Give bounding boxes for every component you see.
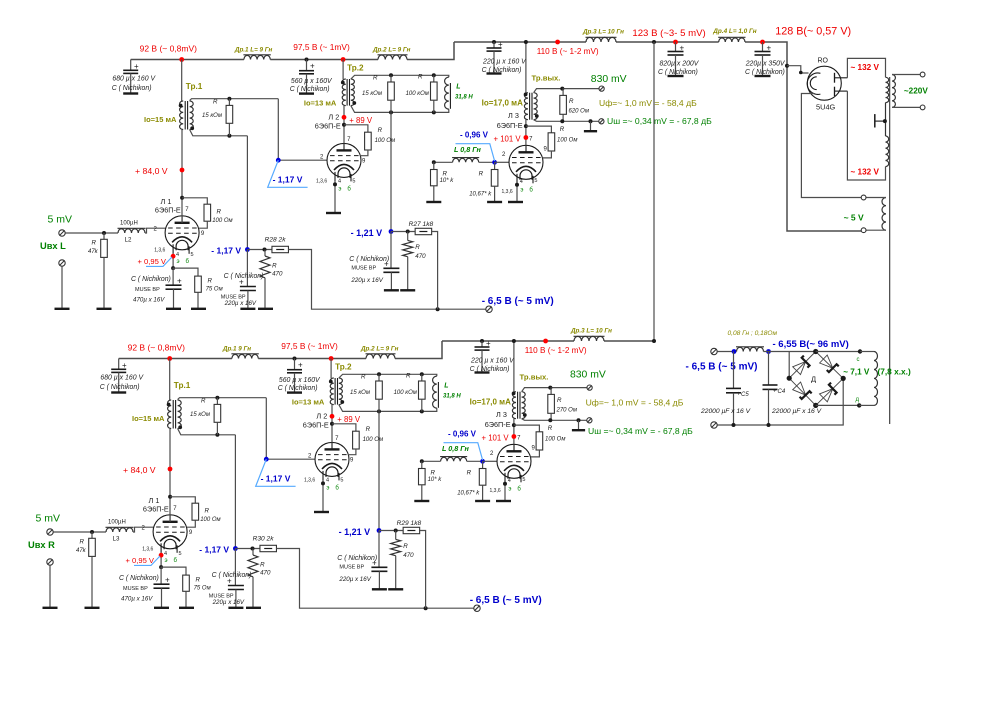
svg-text:+: + <box>310 62 315 71</box>
svg-text:э: э <box>520 187 523 193</box>
wire Tr1 secondary top (left ch) <box>190 97 279 101</box>
terminal output hot (left ch) <box>591 74 627 91</box>
svg-text:100 Ом: 100 Ом <box>557 137 577 143</box>
label 97.5V (left ch) <box>293 42 350 52</box>
capacitor 220u 160V (left ch) <box>482 40 527 74</box>
wire input (right ch) <box>54 530 107 534</box>
capacitor 220u 160V (right ch) <box>470 339 515 373</box>
svg-text:R: R <box>431 470 436 477</box>
resistor R 10.67k (right ch) <box>457 461 490 501</box>
svg-text:L: L <box>444 383 448 390</box>
svg-text:75 Ом: 75 Ом <box>194 586 211 592</box>
svg-text:Io=15 мА: Io=15 мА <box>144 115 177 124</box>
capacitor 470u 16V cathode (left ch) <box>131 268 182 309</box>
svg-text:680 µ x 160 V: 680 µ x 160 V <box>112 76 156 83</box>
diode D2 (T-R) <box>820 355 839 372</box>
node 123V junction <box>652 40 656 44</box>
wire interstage2 bottom (right ch) <box>339 405 437 414</box>
svg-text:б: б <box>335 486 339 492</box>
label 110V (right ch) <box>525 346 587 355</box>
svg-text:Io=13 мА: Io=13 мА <box>292 398 325 407</box>
inductor L2 100uH (right ch) <box>106 520 134 543</box>
svg-text:92 В (~ 0,8mV): 92 В (~ 0,8mV) <box>128 343 186 353</box>
label 123V <box>632 28 705 39</box>
svg-text:MUSE BP: MUSE BP <box>135 287 160 293</box>
transformer Tr2 (left ch) <box>304 60 364 108</box>
svg-text:Io=17,0 мА: Io=17,0 мА <box>470 398 511 407</box>
center tap <box>875 114 887 127</box>
tube L2 6E6P-E (left ch) <box>315 112 366 192</box>
svg-text:R27 1k8: R27 1k8 <box>409 221 434 228</box>
wire B+ rail 110V/123V segment (right ch) <box>442 340 654 342</box>
inductor Dr1 (left ch) <box>234 47 273 60</box>
terminal output hot (right ch) <box>570 370 606 391</box>
resistor R 100 Ohm stage1 (right ch) <box>170 497 221 527</box>
transformer Tr1 (left ch) <box>144 60 203 131</box>
callout +0.95V (right ch) <box>126 556 161 565</box>
resistor R 100 Ohm stage1 (left ch) <box>182 198 233 228</box>
label +89V (right ch) <box>337 415 361 424</box>
svg-text:б: б <box>347 187 351 193</box>
wire bias node to R28 (right ch) <box>235 547 260 551</box>
node -1.21V (right ch) <box>339 527 382 537</box>
svg-text:R: R <box>272 263 277 270</box>
svg-text:R: R <box>366 426 371 433</box>
svg-text:C ( Nichikon): C ( Nichikon) <box>131 276 171 283</box>
wire anode L3 (left ch) <box>524 120 529 146</box>
resistor R 620 Ohm (right ch) <box>548 387 577 419</box>
svg-text:47k: 47k <box>88 249 99 255</box>
power transformer HV winding <box>847 58 888 180</box>
label +84.0V (left ch) <box>135 166 168 176</box>
svg-text:270 Ом: 270 Ом <box>556 408 577 414</box>
svg-text:Др.2 L= 9 Гн: Др.2 L= 9 Гн <box>372 47 411 54</box>
svg-text:123 В (~3- 5 mV): 123 В (~3- 5 mV) <box>632 28 705 39</box>
inductor L 31.8 H (left ch) <box>445 77 474 109</box>
svg-text:100 Ом: 100 Ом <box>375 138 395 144</box>
svg-text:97,5 В (~ 1mV): 97,5 В (~ 1mV) <box>293 42 350 52</box>
svg-text:5 mV: 5 mV <box>48 214 73 226</box>
svg-text:100 кОм: 100 кОм <box>406 91 429 97</box>
diode D1 (L-T) <box>793 356 810 375</box>
tube L1 6E6P-E (right ch) <box>142 496 193 564</box>
svg-text:1,3,6: 1,3,6 <box>154 248 165 254</box>
svg-text:470µ x 16V: 470µ x 16V <box>133 297 165 304</box>
wire grid3 (right ch) <box>483 460 497 462</box>
label bias choke <box>728 330 778 337</box>
node -1.21V (left ch) <box>351 228 394 238</box>
svg-text:5: 5 <box>340 478 343 484</box>
wire output bottom (right ch) <box>522 418 587 422</box>
label +84.0V (right ch) <box>123 465 156 475</box>
capacitor 470u 16V cathode (right ch) <box>119 567 170 608</box>
svg-text:Uвх R: Uвх R <box>28 540 55 550</box>
svg-text:5U4G: 5U4G <box>816 103 836 112</box>
resistor R 10.67k (left ch) <box>469 162 502 202</box>
svg-text:5: 5 <box>191 252 194 258</box>
svg-text:б: б <box>517 486 521 492</box>
svg-text:R: R <box>378 127 383 134</box>
capacitor 560u 160V (left ch) <box>290 58 333 94</box>
svg-text:R: R <box>406 373 411 380</box>
svg-text:C4: C4 <box>778 389 786 395</box>
svg-text:C ( Nichikon): C ( Nichikon) <box>212 572 252 579</box>
label -6.55V <box>773 339 849 350</box>
svg-text:Io=17,0 мА: Io=17,0 мА <box>482 99 523 108</box>
svg-text:97,5 В (~ 1mV): 97,5 В (~ 1mV) <box>281 341 338 351</box>
svg-text:1,3,6: 1,3,6 <box>142 547 153 553</box>
svg-text:- 1,17 V: - 1,17 V <box>199 544 229 554</box>
svg-text:0,08 Гн ; 0,18Ом: 0,08 Гн ; 0,18Ом <box>728 330 778 337</box>
svg-text:+: + <box>165 576 170 585</box>
svg-text:128 В(~ 0,57 V): 128 В(~ 0,57 V) <box>775 26 851 38</box>
svg-text:R: R <box>260 562 265 569</box>
wire cathode L2 to ground (right ch) <box>314 480 329 512</box>
svg-text:Тр.2: Тр.2 <box>335 363 352 372</box>
wire Tr1 secondary bottom (left ch) <box>190 130 248 138</box>
primary 220V winding <box>892 72 928 110</box>
svg-text:470: 470 <box>272 271 283 278</box>
svg-text:110 В (~ 1-2 mV): 110 В (~ 1-2 mV) <box>525 346 587 355</box>
wire stage2 bias feed (left ch) <box>390 112 392 231</box>
wire anode L2 (left ch) <box>342 106 347 144</box>
wire cathode L2 to ground (left ch) <box>326 181 341 213</box>
7.1V winding <box>843 352 911 406</box>
svg-text:100 Ом: 100 Ом <box>363 437 383 443</box>
svg-text:Др.3 L= 10 Гн: Др.3 L= 10 Гн <box>570 328 612 335</box>
transformer Tr out (right ch) <box>470 339 549 419</box>
node 97.5V (left ch) <box>341 57 346 62</box>
svg-text:- 6,55 В(~ 96 mV): - 6,55 В(~ 96 mV) <box>773 339 849 350</box>
node cathode L1 +0.95V (right ch) <box>159 553 164 569</box>
svg-text:C ( Nichikon): C ( Nichikon) <box>658 69 698 76</box>
svg-text:5 mV: 5 mV <box>36 513 61 525</box>
left channel <box>40 29 712 313</box>
resistor R27 1k8 (left ch) <box>391 221 438 309</box>
svg-text:R: R <box>361 374 366 381</box>
svg-text:- 1,21 V: - 1,21 V <box>339 527 371 537</box>
inductor Dr4 <box>712 28 756 42</box>
capacitor 220u 16V stage2 (left ch) <box>349 232 399 291</box>
capacitor 220u 16V stage2 (right ch) <box>337 531 387 590</box>
svg-text:R: R <box>467 470 472 477</box>
svg-text:4: 4 <box>508 478 511 484</box>
wire bias node to R28 (left ch) <box>247 248 272 252</box>
wire anode L1 (left ch) <box>180 130 185 223</box>
svg-text:Io=15 мА: Io=15 мА <box>132 414 165 423</box>
svg-text:220µ x 16V: 220µ x 16V <box>338 576 371 583</box>
wire HV rail 123V/128V <box>666 42 861 231</box>
callout -1.17V grid2 (right ch) <box>256 459 296 486</box>
svg-text:10* k: 10* k <box>440 178 455 184</box>
svg-text:б: б <box>174 558 178 564</box>
inductor L 0.8 Gn (left ch) <box>452 145 495 162</box>
wire anode L2 (right ch) <box>330 405 335 443</box>
svg-text:620 Ом: 620 Ом <box>569 109 589 115</box>
svg-text:- 0,96 V: - 0,96 V <box>460 130 489 139</box>
wire cathode L3 to ground (left ch) <box>508 183 523 202</box>
wire anode L3 (right ch) <box>512 419 517 445</box>
svg-text:100 Ом: 100 Ом <box>545 436 565 442</box>
svg-text:б: б <box>186 259 190 265</box>
terminal output gnd (left ch) <box>599 119 604 124</box>
svg-text:(7,8 х.х.): (7,8 х.х.) <box>878 366 911 376</box>
resistor R 470 stage2 (right ch) <box>388 531 414 590</box>
wire bias return <box>718 378 844 427</box>
svg-text:- 1,17 V: - 1,17 V <box>261 474 291 484</box>
label D <box>811 375 816 384</box>
svg-text:Тр.вых.: Тр.вых. <box>532 74 561 83</box>
svg-text:4: 4 <box>326 478 329 484</box>
capacitor 680u 160V (right ch) <box>100 359 145 393</box>
svg-text:Uф=~ 1,0 mV = - 58,4 дБ: Uф=~ 1,0 mV = - 58,4 дБ <box>599 98 697 108</box>
resistor R 47k (left ch) <box>88 233 112 309</box>
wire grid1 (left ch) <box>145 228 166 233</box>
svg-text:5: 5 <box>522 477 525 483</box>
svg-text:Тр.1: Тр.1 <box>174 381 191 390</box>
wire interstage2 top (right ch) <box>339 372 437 378</box>
label 128V <box>775 26 851 38</box>
tube L2 6E6P-E (right ch) <box>303 411 354 491</box>
wire L0.8 feed (right ch) <box>420 459 441 463</box>
svg-text:22000 µF x 16 V: 22000 µF x 16 V <box>771 408 822 415</box>
inductor Dr3 (left ch) <box>582 29 624 43</box>
svg-text:- 6,5 В (~ 5 mV): - 6,5 В (~ 5 mV) <box>686 362 758 373</box>
svg-text:R: R <box>403 543 408 550</box>
resistor R 75 Ohm cathode (right ch) <box>161 567 211 608</box>
svg-text:L3: L3 <box>113 536 120 543</box>
svg-text:R: R <box>548 425 553 432</box>
svg-text:R: R <box>213 99 218 106</box>
transformer core line <box>889 77 891 424</box>
svg-text:1,3,6: 1,3,6 <box>304 477 315 483</box>
svg-text:C ( Nichikon): C ( Nichikon) <box>112 85 152 92</box>
label 110V (left ch) <box>537 47 599 56</box>
diode D4 (B-R) <box>820 383 837 402</box>
terminal -6.5V (right ch) <box>470 595 542 611</box>
svg-text:47k: 47k <box>76 548 87 554</box>
label Ush (right ch) <box>588 426 693 436</box>
svg-text:22000 µF x 16 V: 22000 µF x 16 V <box>700 408 751 415</box>
resistor R 470 stage1 (right ch) <box>246 549 271 608</box>
transformer Tr2 (right ch) <box>292 359 352 407</box>
wire L0.8 feed (left ch) <box>432 160 453 164</box>
resistor R27 1k8 (right ch) <box>379 520 426 608</box>
svg-text:C ( Nichikon): C ( Nichikon) <box>482 67 522 74</box>
svg-text:830 mV: 830 mV <box>570 370 606 381</box>
terminal bias out <box>686 348 758 372</box>
svg-text:R: R <box>418 74 423 81</box>
svg-text:э: э <box>177 259 180 265</box>
capacitor C4 22000uF <box>763 352 822 426</box>
capacitor 220u 16V stage1 (right ch) <box>209 549 252 608</box>
resistor R 15 kOhm stage2 (right ch) <box>350 374 382 412</box>
inductor bias choke <box>717 347 815 354</box>
svg-text:560 µ x 160V: 560 µ x 160V <box>291 78 333 85</box>
callout -0.96V (left ch) <box>456 144 495 161</box>
svg-text:75 Ом: 75 Ом <box>206 287 223 293</box>
svg-text:220µ x 350V: 220µ x 350V <box>745 61 786 68</box>
svg-text:4: 4 <box>520 179 523 185</box>
svg-text:R: R <box>569 98 574 105</box>
wire output top (right ch) <box>522 386 587 392</box>
svg-text:1,3,6: 1,3,6 <box>490 488 501 494</box>
wire bridge AC top <box>816 349 863 353</box>
tube L3 6E6P-E (right ch) <box>485 410 536 494</box>
wire bridge AC bottom <box>816 403 862 407</box>
svg-text:220 µ x 160 V: 220 µ x 160 V <box>470 358 515 365</box>
wire -6.5V bus (left ch) <box>288 250 486 312</box>
svg-text:5: 5 <box>179 551 182 557</box>
wire rectifier filament feed <box>785 64 809 75</box>
svg-text:- 1,17 V: - 1,17 V <box>273 175 303 185</box>
svg-text:+ 101 V: + 101 V <box>494 135 522 144</box>
node 92V (right ch) <box>167 356 172 361</box>
resistor R 10k (left ch) <box>426 162 454 202</box>
node -1.17V cathode net (right ch) <box>199 544 238 554</box>
svg-text:830 mV: 830 mV <box>591 74 627 85</box>
svg-text:1,3,6: 1,3,6 <box>316 178 327 184</box>
svg-text:C ( Nichikon): C ( Nichikon) <box>745 69 785 76</box>
inductor Dr1 (right ch) <box>222 346 259 359</box>
node 110V (right ch) <box>543 339 548 344</box>
wire grid2 drive (right ch) <box>266 398 315 460</box>
svg-text:6Э6П-Е: 6Э6П-Е <box>485 420 511 429</box>
node 110V (left ch) <box>555 40 560 45</box>
svg-text:C ( Nichikon): C ( Nichikon) <box>290 86 330 93</box>
svg-text:470: 470 <box>415 253 426 260</box>
wire interstage2 bottom (left ch) <box>351 106 449 115</box>
terminal input gnd (left ch) <box>55 260 70 309</box>
wire filament to 5V winding <box>801 94 861 198</box>
svg-text:470: 470 <box>403 552 414 559</box>
resistor R28 2k (left ch) <box>265 237 289 253</box>
svg-text:~ 5 V: ~ 5 V <box>844 212 864 222</box>
resistor R 75 Ohm cathode (left ch) <box>173 268 223 309</box>
svg-text:C ( Nichikon): C ( Nichikon) <box>470 366 510 373</box>
svg-text:10,67* k: 10,67* k <box>469 191 492 197</box>
svg-text:~ 132 V: ~ 132 V <box>851 63 880 72</box>
resistor R 470 stage2 (left ch) <box>400 232 426 291</box>
node -1.17V grid2 (right ch) <box>264 457 269 462</box>
svg-text:R: R <box>92 240 97 247</box>
svg-text:R: R <box>373 75 378 82</box>
tube L3 6E6P-E (left ch) <box>497 111 548 195</box>
node -0.96V (left ch) <box>460 130 497 164</box>
svg-text:Др.1 9 Гн: Др.1 9 Гн <box>222 346 251 353</box>
terminal input hot (right ch) <box>28 513 60 551</box>
svg-text:R: R <box>80 539 85 546</box>
svg-text:10* k: 10* k <box>428 477 443 483</box>
svg-text:R29 1k8: R29 1k8 <box>397 520 422 527</box>
terminal bias gnd <box>711 422 717 428</box>
svg-text:Д: Д <box>811 375 816 384</box>
resistor R 100 Ohm stage3 (left ch) <box>526 126 578 158</box>
svg-text:L 0,8 Гн: L 0,8 Гн <box>442 444 469 453</box>
callout -1.17V grid2 (left ch) <box>268 160 308 187</box>
svg-text:Др.3 L= 10 Гн: Др.3 L= 10 Гн <box>582 29 624 36</box>
svg-text:680 µ x 160 V: 680 µ x 160 V <box>100 375 144 382</box>
wire stage2 bias feed (right ch) <box>378 411 380 530</box>
svg-text:6Э6П-Е: 6Э6П-Е <box>143 505 169 514</box>
svg-text:- 0,96 V: - 0,96 V <box>448 429 477 438</box>
svg-text:560 µ x 160V: 560 µ x 160V <box>279 377 321 384</box>
svg-text:R: R <box>443 171 448 178</box>
svg-text:+ 89 V: + 89 V <box>337 415 361 424</box>
svg-text:L: L <box>456 84 460 91</box>
svg-text:R28 2k: R28 2k <box>265 237 287 244</box>
wire grid2 drive (left ch) <box>278 99 327 161</box>
svg-text:C5: C5 <box>741 392 749 398</box>
svg-text:R: R <box>196 577 201 584</box>
resistor R 100 Ohm stage2 (left ch) <box>344 125 395 156</box>
rectifier tube 5U4G <box>807 58 847 112</box>
resistor R 15 kOhm stage1 (left ch) <box>202 99 233 136</box>
svg-text:Uф=~ 1,0 mV = - 58,4 дБ: Uф=~ 1,0 mV = - 58,4 дБ <box>586 398 684 408</box>
node -0.96V (right ch) <box>448 429 485 463</box>
resistor R 100 Ohm stage2 (right ch) <box>332 424 383 455</box>
svg-text:+: + <box>773 389 777 395</box>
svg-text:4: 4 <box>338 179 341 185</box>
label 97.5V (right ch) <box>281 341 338 351</box>
node cathode L1 +0.95V (left ch) <box>171 254 176 270</box>
resistor R 15 kOhm stage2 (left ch) <box>362 75 394 113</box>
svg-text:~220V: ~220V <box>904 86 928 95</box>
svg-text:Л 2: Л 2 <box>316 411 327 420</box>
callout -0.96V (right ch) <box>444 443 483 460</box>
svg-text:- 1,17 V: - 1,17 V <box>211 245 241 255</box>
svg-text:R: R <box>415 244 420 251</box>
svg-text:Тр.2: Тр.2 <box>347 64 364 73</box>
inductor Dr2 (right ch) <box>360 346 399 359</box>
wire Tr1 secondary bottom (right ch) <box>178 429 236 437</box>
svg-text:220µ x 16V: 220µ x 16V <box>350 277 383 284</box>
svg-text:Др.1 L= 9 Гн: Др.1 L= 9 Гн <box>234 47 273 54</box>
5V winding <box>844 195 886 233</box>
terminal input hot (left ch) <box>40 214 72 252</box>
svg-text:C ( Nichikon): C ( Nichikon) <box>224 273 264 280</box>
svg-text:- 6,5 В (~ 5 mV): - 6,5 В (~ 5 mV) <box>470 595 542 606</box>
wire input (left ch) <box>66 231 119 235</box>
ground output (left ch) <box>584 121 597 131</box>
terminal input gnd (right ch) <box>43 559 58 608</box>
svg-text:100 кОм: 100 кОм <box>394 390 417 396</box>
resistor R 100 kOhm (right ch) <box>394 373 426 412</box>
svg-text:15 кОм: 15 кОм <box>350 390 370 396</box>
wire B+ rail 92V/97.5V segment (right ch) <box>119 341 442 359</box>
svg-text:+ 0,95 V: + 0,95 V <box>126 556 155 565</box>
transformer Tr1 (right ch) <box>132 359 191 430</box>
svg-text:R: R <box>201 398 206 405</box>
svg-text:MUSE BP: MUSE BP <box>351 265 376 271</box>
svg-text:470: 470 <box>260 570 271 577</box>
svg-text:5: 5 <box>352 179 355 185</box>
ground output (right ch) <box>572 420 585 430</box>
svg-text:R30 2k: R30 2k <box>253 536 275 543</box>
svg-text:б: б <box>529 187 533 193</box>
svg-text:R: R <box>205 508 210 515</box>
svg-text:100µH: 100µH <box>120 221 138 227</box>
resistor R 620 Ohm (left ch) <box>560 88 589 120</box>
svg-text:6Э6П-Е: 6Э6П-Е <box>497 121 523 130</box>
svg-text:э: э <box>338 187 341 193</box>
resistor R 100 Ohm stage3 (right ch) <box>514 425 566 457</box>
svg-text:Uш =~ 0,34 mV = - 67,8 дБ: Uш =~ 0,34 mV = - 67,8 дБ <box>607 116 712 126</box>
resistor R 15 kOhm stage1 (right ch) <box>190 398 221 435</box>
svg-text:15 кОм: 15 кОм <box>190 412 210 418</box>
svg-text:+ 84,0 V: + 84,0 V <box>123 465 156 475</box>
tube L1 6E6P-E (left ch) <box>154 197 205 265</box>
